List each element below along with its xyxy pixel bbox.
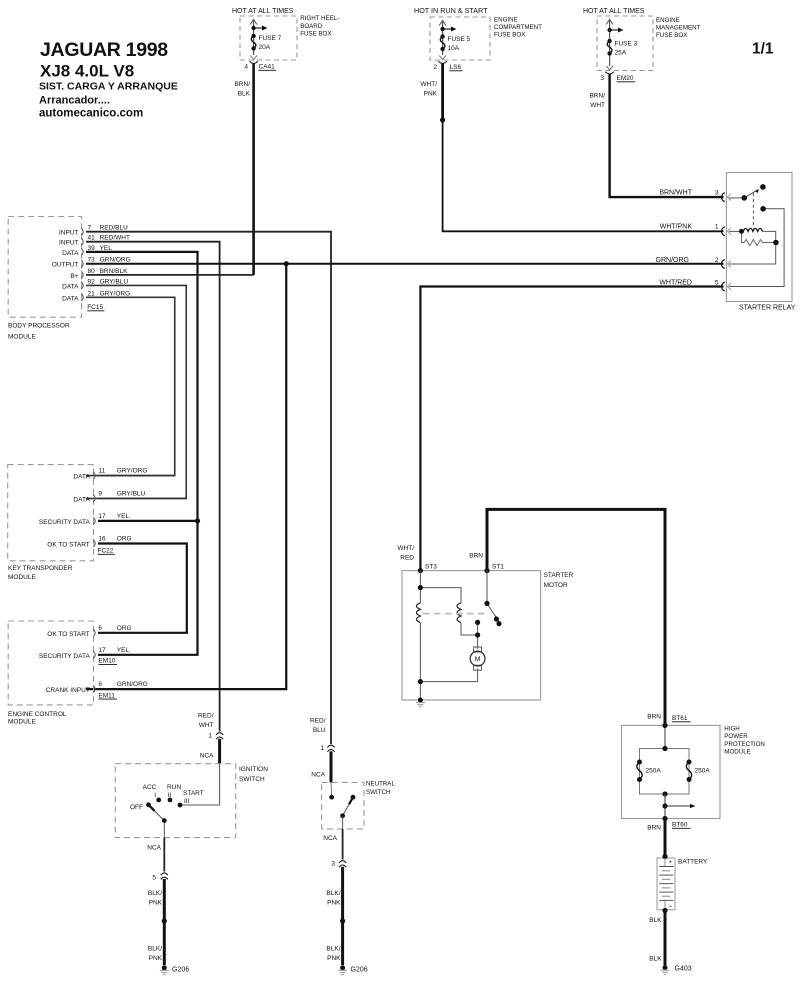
svg-text:INPUT: INPUT (59, 230, 79, 237)
svg-text:6: 6 (98, 681, 102, 688)
svg-text:FC22: FC22 (98, 548, 114, 555)
svg-text:ENGINE: ENGINE (494, 17, 518, 24)
svg-text:GRY/BLU: GRY/BLU (117, 490, 146, 497)
svg-text:3: 3 (331, 861, 335, 868)
svg-text:BLK: BLK (238, 91, 251, 98)
svg-text:G403: G403 (675, 966, 692, 973)
svg-text:BT60: BT60 (672, 822, 688, 829)
svg-text:B+: B+ (70, 273, 78, 280)
svg-text:M: M (475, 656, 481, 663)
svg-text:DATA: DATA (62, 295, 79, 302)
svg-text:PNK: PNK (327, 900, 341, 907)
svg-text:WHT/: WHT/ (397, 545, 414, 552)
svg-text:BLK: BLK (649, 917, 662, 924)
svg-text:LS6: LS6 (450, 64, 462, 71)
svg-text:CRANK INPUT: CRANK INPUT (46, 687, 90, 694)
svg-text:RED/WHT: RED/WHT (100, 235, 130, 242)
svg-text:NCA: NCA (323, 835, 337, 842)
svg-text:ORG: ORG (117, 625, 132, 632)
svg-text:250A: 250A (646, 768, 662, 775)
svg-text:IGNITION: IGNITION (239, 766, 268, 773)
svg-text:1: 1 (320, 745, 324, 752)
svg-text:BT61: BT61 (672, 715, 688, 722)
svg-text:21: 21 (88, 290, 96, 297)
svg-text:START: START (183, 790, 204, 797)
svg-text:EM11: EM11 (98, 692, 115, 699)
svg-text:NCA: NCA (311, 772, 325, 779)
svg-text:92: 92 (88, 278, 96, 285)
svg-text:PROTECTION: PROTECTION (724, 741, 765, 748)
svg-text:DATA: DATA (62, 283, 79, 290)
svg-text:WHT/PNK: WHT/PNK (660, 224, 693, 231)
svg-text:GRY/BLU: GRY/BLU (100, 278, 129, 285)
svg-text:SWITCH: SWITCH (366, 789, 390, 796)
svg-text:BRN: BRN (647, 825, 661, 832)
svg-text:SIST. CARGA Y ARRANQUE: SIST. CARGA Y ARRANQUE (39, 81, 178, 93)
svg-text:GRY/ORG: GRY/ORG (117, 468, 148, 475)
svg-text:BLK/: BLK/ (326, 946, 340, 953)
svg-text:DATA: DATA (73, 496, 90, 503)
svg-text:PNK: PNK (149, 900, 163, 907)
svg-text:1: 1 (715, 224, 719, 231)
svg-text:5: 5 (715, 279, 719, 286)
svg-text:BRN/WHT: BRN/WHT (659, 190, 692, 197)
svg-text:III: III (184, 798, 190, 805)
svg-text:PNK: PNK (149, 955, 163, 962)
svg-text:G206: G206 (172, 967, 189, 974)
svg-text:BRN/: BRN/ (234, 81, 250, 88)
svg-text:3: 3 (600, 75, 604, 82)
svg-text:NCA: NCA (200, 753, 214, 760)
svg-text:RED: RED (400, 555, 414, 562)
svg-text:CA41: CA41 (259, 64, 276, 71)
svg-text:FUSE BOX: FUSE BOX (494, 31, 525, 38)
svg-text:FUSE 3: FUSE 3 (615, 41, 638, 48)
svg-text:MODULE: MODULE (724, 749, 750, 756)
svg-text:250A: 250A (695, 768, 711, 775)
svg-text:YEL: YEL (117, 513, 130, 520)
svg-text:3: 3 (715, 190, 719, 197)
svg-text:41: 41 (88, 235, 96, 242)
svg-text:ORG: ORG (117, 536, 132, 543)
svg-text:17: 17 (98, 513, 106, 520)
svg-text:SECURITY DATA: SECURITY DATA (39, 653, 91, 660)
svg-text:FUSE BOX: FUSE BOX (656, 32, 687, 39)
svg-text:RED/: RED/ (198, 713, 214, 720)
svg-text:RIGHT HEEL-: RIGHT HEEL- (300, 15, 339, 22)
svg-text:STARTER RELAY: STARTER RELAY (739, 305, 796, 312)
svg-text:MODULE: MODULE (8, 334, 36, 341)
svg-text:7: 7 (88, 225, 92, 232)
svg-text:NCA: NCA (147, 845, 161, 852)
svg-text:HOT AT ALL TIMES: HOT AT ALL TIMES (232, 8, 294, 15)
svg-text:25A: 25A (615, 50, 627, 57)
svg-text:STARTER: STARTER (544, 572, 574, 579)
svg-text:BRN/: BRN/ (589, 93, 605, 100)
svg-text:BRN/BLK: BRN/BLK (100, 268, 128, 275)
svg-text:SWITCH: SWITCH (239, 776, 265, 783)
svg-text:EM20: EM20 (617, 75, 634, 82)
svg-text:17: 17 (98, 647, 106, 654)
svg-text:HIGH: HIGH (724, 726, 739, 733)
svg-text:BLK/: BLK/ (148, 946, 162, 953)
svg-text:BATTERY: BATTERY (678, 859, 708, 866)
svg-text:OUTPUT: OUTPUT (52, 262, 79, 269)
svg-text:10A: 10A (448, 45, 460, 52)
svg-text:HOT IN RUN & START: HOT IN RUN & START (414, 6, 488, 15)
svg-text:9: 9 (98, 490, 102, 497)
svg-text:BLU: BLU (313, 727, 326, 734)
svg-text:BLK/: BLK/ (326, 890, 340, 897)
svg-text:FUSE 5: FUSE 5 (448, 36, 471, 43)
svg-text:5: 5 (152, 875, 156, 882)
svg-text:MOTOR: MOTOR (544, 582, 568, 589)
svg-text:ST3: ST3 (425, 564, 437, 571)
svg-text:16: 16 (98, 536, 106, 543)
svg-text:RED/BLU: RED/BLU (100, 225, 128, 232)
svg-text:ST1: ST1 (492, 564, 504, 571)
svg-text:MODULE: MODULE (8, 719, 36, 726)
svg-text:EM10: EM10 (98, 658, 115, 665)
svg-text:II: II (168, 792, 172, 799)
svg-text:80: 80 (88, 268, 96, 275)
svg-text:GRY/ORG: GRY/ORG (100, 290, 131, 297)
svg-text:20A: 20A (259, 44, 271, 51)
svg-text:automecanico.com: automecanico.com (39, 108, 143, 120)
svg-text:1: 1 (208, 733, 212, 740)
svg-text:BLK/: BLK/ (148, 890, 162, 897)
svg-text:WHT/: WHT/ (420, 81, 437, 88)
svg-text:YEL: YEL (117, 647, 130, 654)
svg-text:OFF: OFF (130, 804, 143, 811)
svg-text:NEUTRAL: NEUTRAL (366, 781, 395, 788)
svg-text:FC15: FC15 (87, 304, 103, 311)
svg-text:HOT AT ALL TIMES: HOT AT ALL TIMES (583, 8, 645, 15)
svg-text:2: 2 (433, 64, 437, 71)
svg-text:KEY TRANSPONDER: KEY TRANSPONDER (8, 565, 73, 572)
svg-text:4: 4 (244, 64, 248, 71)
svg-text:GRN/ORG: GRN/ORG (100, 257, 131, 264)
svg-text:MODULE: MODULE (8, 574, 36, 581)
svg-text:G206: G206 (351, 967, 368, 974)
svg-text:RUN: RUN (167, 784, 181, 791)
svg-text:73: 73 (88, 257, 96, 264)
svg-text:OK TO START: OK TO START (47, 542, 90, 549)
svg-text:PNK: PNK (424, 91, 438, 98)
svg-text:FUSE 7: FUSE 7 (259, 35, 282, 42)
svg-text:RED/: RED/ (310, 718, 326, 725)
svg-text:MANAGEMENT: MANAGEMENT (656, 25, 701, 32)
svg-text:FUSE BOX: FUSE BOX (300, 30, 331, 37)
svg-text:BOARD: BOARD (300, 23, 323, 30)
svg-text:INPUT: INPUT (59, 240, 79, 247)
svg-text:WHT: WHT (590, 102, 605, 109)
svg-text:SECURITY DATA: SECURITY DATA (39, 519, 91, 526)
svg-text:6: 6 (98, 625, 102, 632)
svg-text:ENGINE: ENGINE (656, 17, 680, 24)
svg-text:WHT: WHT (199, 722, 214, 729)
svg-text:JAGUAR 1998: JAGUAR 1998 (40, 39, 168, 61)
svg-text:1/1: 1/1 (752, 41, 774, 58)
svg-text:WHT/RED: WHT/RED (659, 279, 692, 286)
svg-text:PNK: PNK (327, 955, 341, 962)
svg-text:ENGINE CONTROL: ENGINE CONTROL (8, 711, 67, 718)
svg-text:Arrancador....: Arrancador.... (39, 95, 110, 107)
svg-text:POWER: POWER (724, 733, 748, 740)
svg-text:BRN: BRN (647, 714, 661, 721)
svg-text:COMPARTMENT: COMPARTMENT (494, 24, 542, 31)
svg-text:OK TO START: OK TO START (47, 631, 90, 638)
svg-text:BLK: BLK (649, 956, 662, 963)
svg-text:11: 11 (98, 468, 105, 475)
svg-text:DATA: DATA (73, 474, 90, 481)
svg-text:DATA: DATA (62, 250, 79, 257)
svg-text:GRN/ORG: GRN/ORG (117, 681, 148, 688)
svg-text:ACC: ACC (143, 784, 157, 791)
svg-text:BRN: BRN (469, 553, 483, 560)
svg-text:I: I (154, 792, 156, 799)
svg-text:BODY PROCESSOR: BODY PROCESSOR (8, 323, 70, 330)
svg-text:XJ8 4.0L V8: XJ8 4.0L V8 (40, 62, 134, 81)
